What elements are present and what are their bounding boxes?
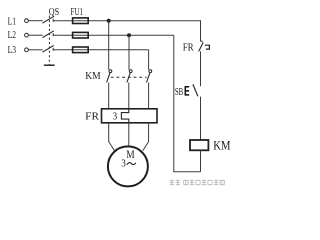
wire control branch from L1 down <box>200 20 202 41</box>
junction dot L1 branch <box>107 19 111 23</box>
svg-text:M: M <box>126 149 134 161</box>
svg-text:FR: FR <box>85 110 99 122</box>
fuse FU1 pole 3 <box>73 47 89 53</box>
wire L2 drop to KM contact <box>128 35 130 69</box>
wire FR box to motor right <box>143 123 149 151</box>
contactor KM contact 1 blade <box>107 73 110 83</box>
wire FR box to motor left <box>109 123 115 151</box>
junction dot L2 branch <box>127 33 131 37</box>
switch QS pole 1 blade <box>43 16 54 23</box>
wire L3 drop to KM contact <box>148 50 150 70</box>
pushbutton SB actuator E <box>185 87 189 95</box>
wire KM contact 1 to FR box <box>108 83 110 110</box>
wire L1 after switch <box>53 20 200 22</box>
svg-text:KM: KM <box>85 70 101 82</box>
wire L1 to switch <box>29 20 43 22</box>
switch QS pole 3 fixed contact <box>52 48 54 51</box>
contactor KM contact 3 blade <box>147 73 150 83</box>
thermal contact FR fixed bar <box>201 40 203 42</box>
wire FR contact to SB button <box>200 51 202 86</box>
terminal circle L2 <box>25 33 29 37</box>
terminal circle L3 <box>25 48 29 52</box>
thermal relay FR heater element <box>121 109 128 123</box>
wire L2 after switch <box>53 34 174 36</box>
wire KM contact 2 to FR box <box>128 83 130 110</box>
svg-text:QS: QS <box>49 6 59 18</box>
svg-text:3: 3 <box>113 112 117 123</box>
svg-text:KM: KM <box>213 138 230 152</box>
coil KM box <box>190 140 208 150</box>
contactor KM contact 2 moving circle <box>129 70 132 73</box>
wire FR box to motor middle <box>128 123 130 148</box>
wire L1 drop to KM contact <box>108 21 110 70</box>
svg-text:FU1: FU1 <box>71 6 84 18</box>
switch QS pole 2 fixed contact <box>52 33 54 36</box>
switch QS pole 2 blade <box>43 31 54 38</box>
fuse FU1 pole 2 <box>73 32 89 38</box>
svg-text:L3: L3 <box>8 44 17 56</box>
switch QS pole 1 fixed contact <box>52 19 54 22</box>
svg-text:L1: L1 <box>8 16 16 28</box>
wire KM contact 3 to FR box <box>148 83 150 110</box>
wire L3 after switch <box>53 49 148 51</box>
thermal relay FR heater box <box>102 109 158 123</box>
switch QS handle bar <box>44 64 55 66</box>
wire KM coil to bottom <box>200 150 202 171</box>
thermal contact FR blade <box>199 42 204 51</box>
motor tilde <box>127 163 136 165</box>
contactor KM contact 2 blade <box>127 73 130 83</box>
svg-text:FR: FR <box>183 42 195 54</box>
wire L3 to switch <box>29 49 43 51</box>
contactor KM contact 1 moving circle <box>109 70 112 73</box>
contactor KM linkage dashed <box>111 76 147 78</box>
watermark <box>170 180 225 184</box>
wire return up to L2 <box>173 35 175 172</box>
thermal contact FR release hook <box>205 45 210 49</box>
terminal circle L1 <box>25 19 29 23</box>
pushbutton SB blade <box>193 84 198 96</box>
switch QS pole 3 blade <box>43 45 54 52</box>
svg-text:3: 3 <box>121 158 126 169</box>
motor M circle <box>108 146 148 186</box>
wire L2 to switch <box>29 34 43 36</box>
wire SB to KM coil <box>200 97 202 140</box>
switch QS linkage dashed <box>48 16 50 65</box>
svg-text:L2: L2 <box>8 29 16 41</box>
contactor KM contact 3 moving circle <box>149 70 152 73</box>
svg-text:SB: SB <box>175 86 183 98</box>
wire bottom return <box>174 171 201 173</box>
fuse FU1 pole 1 <box>73 18 89 24</box>
